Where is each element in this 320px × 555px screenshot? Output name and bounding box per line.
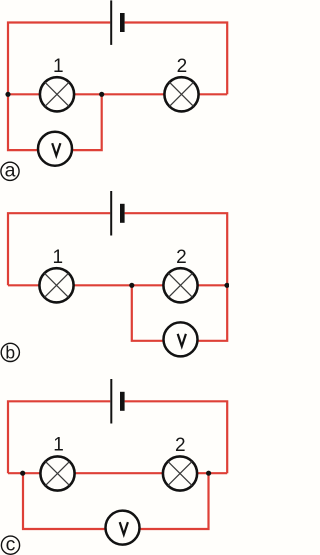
battery cell a: short thick negative plate [120,13,125,32]
battery cell c: short thick negative plate [120,392,125,411]
label (b) [1,342,19,362]
svg-text:2: 2 [177,56,188,77]
wire: circuit a top-right wire and right wire down to lamp line [125,23,228,95]
wire: circuit b main horizontal wire through lamps 1 and 2 [8,284,227,286]
wire: circuit a left loop (top-left wire, left wire down through junction, voltmeter bottom wire, riser to node right of lamp 1) [8,23,110,151]
lamp 2 (circuit a) [164,77,198,111]
battery cell b: short thick negative plate [120,204,125,223]
svg-text:1: 1 [53,247,64,268]
node: junction right of lamp 1 (circuit a) [99,92,104,97]
voltmeter V (circuit a) [38,132,72,166]
wire: circuit c voltmeter loop (down from node left of lamp 1, bottom wire, up to node right of lamp 2) [23,473,209,529]
label (a) [1,159,19,181]
node: junction right wire at lamp line (circuit b) [224,283,229,288]
voltmeter V (circuit c) [106,511,140,545]
svg-text:1: 1 [53,56,64,77]
lamp 2 (circuit c) [163,456,197,490]
lamp 1 (circuit a) [40,77,74,111]
svg-text:b: b [5,342,15,362]
wire: circuit a main horizontal wire through lamps 1 and 2 [8,93,227,95]
node: junction left of lamp 2 (circuit b) [129,283,134,288]
node: junction right of lamp 2 (circuit c) [206,471,211,476]
label (c) [1,533,19,555]
svg-text:1: 1 [53,435,64,456]
wire: circuit c top-left wire and left wire down to lamp line [8,401,110,473]
wire: circuit b top-left wire and left wire down to lamp line [8,213,110,285]
lamp 1 (circuit c) [40,456,74,490]
svg-text:2: 2 [175,435,186,456]
node: junction left of lamp 1 (circuit a) [5,92,10,97]
wire: circuit b top-right wire, right wire down through junction, voltmeter bottom wire, riser to node left of lamp 2 [125,213,228,341]
wire: circuit c main horizontal wire through lamps 1 and 2 [8,472,227,474]
battery cell c: long positive plate [110,379,112,424]
svg-text:a: a [5,159,16,181]
node: junction left of lamp 1 (circuit c) [20,471,25,476]
wire: circuit c top-right wire and right wire down to lamp line [125,401,228,473]
battery cell a: long positive plate [110,0,112,45]
svg-text:c: c [6,533,16,555]
lamp 1 (circuit b) [39,268,73,302]
svg-text:2: 2 [176,247,187,268]
voltmeter V (circuit b) [164,322,198,356]
lamp 2 (circuit b) [163,268,197,302]
battery cell b: long positive plate [110,191,112,236]
